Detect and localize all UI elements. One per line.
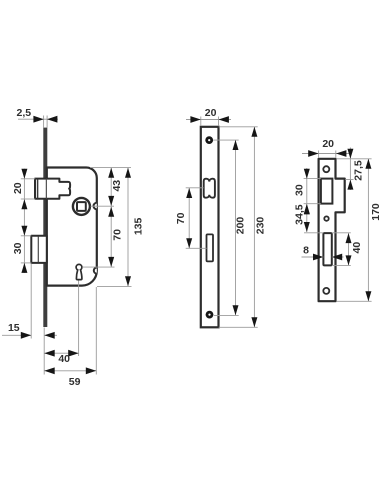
wire ext latch top — [21, 178, 35, 180]
wire ext plate bottom right — [336, 300, 371, 302]
follower circle U — [73, 198, 90, 215]
wire dim line 20 top — [186, 119, 231, 121]
svg-text:30: 30 — [12, 242, 24, 254]
svg-text:40: 40 — [58, 353, 70, 365]
screw hole bottom — [323, 288, 329, 294]
wire dim vline 30/34,5 — [306, 168, 308, 232]
node arrow 70 top — [108, 207, 114, 217]
wire dim line 59 — [44, 370, 96, 372]
wire ext keyhole axis vline — [78, 281, 80, 357]
svg-text:70: 70 — [175, 212, 187, 224]
svg-text:43: 43 — [111, 180, 123, 192]
wire ext hole bottom right — [214, 314, 239, 316]
wire dim line 40 — [44, 352, 78, 354]
wire ext faceplate bottom vline — [43, 328, 45, 375]
wire dim vline 20/30 left — [23, 169, 25, 273]
svg-text:40: 40 — [351, 242, 363, 254]
wire ext latch bottom — [21, 198, 35, 200]
wire dim line 8 — [302, 256, 344, 258]
node arrow 40 left — [44, 350, 54, 357]
latch cutout — [204, 179, 215, 198]
wire ext hole top right — [213, 139, 239, 141]
svg-text:34,5: 34,5 — [294, 204, 306, 225]
wire ext follower axis right — [91, 205, 115, 207]
wire dim vline 70 — [188, 188, 190, 248]
node arrow 230 bottom — [251, 317, 257, 327]
svg-text:20: 20 — [322, 138, 334, 150]
node arrow 30 bottom — [304, 204, 310, 214]
node arrow 2,5 left — [33, 116, 43, 123]
node arrow 135 bottom — [125, 276, 131, 286]
node arrow 40 bottom — [346, 255, 352, 265]
wire ext case bottom right — [97, 285, 132, 287]
deadbolt slot — [323, 233, 331, 265]
node arrow 20 left — [308, 150, 318, 157]
node arrow 40 top — [346, 233, 352, 243]
faceplate edge bar — [43, 128, 47, 327]
wire ext case bottom vline — [95, 287, 97, 375]
wire ext case top right — [90, 167, 131, 169]
wire dim line 2,5 — [18, 118, 58, 120]
node arrow 20 right — [336, 150, 346, 157]
strike plate outline — [319, 159, 345, 301]
latch bolt head — [35, 179, 47, 199]
deadbolt bevel line — [37, 236, 39, 262]
node arrow 20 bottom — [21, 199, 27, 209]
follower square — [77, 202, 86, 211]
wire ext plate top right — [336, 158, 371, 160]
wire ext plate bottom right — [219, 326, 258, 328]
keyhole slot — [76, 269, 82, 279]
latch cutout — [321, 179, 333, 204]
latch bolt bevel line — [37, 179, 39, 198]
node arrow 230 top — [251, 127, 257, 137]
svg-text:20: 20 — [205, 107, 217, 119]
wire dim vline 200 — [235, 140, 237, 315]
node arrow 27,5 bottom — [347, 180, 353, 190]
faceplate front outline — [201, 127, 219, 327]
wire dim vline 40 — [348, 233, 350, 265]
screw hole top — [205, 136, 213, 144]
node arrow 20 left — [190, 116, 200, 123]
center hole — [324, 216, 328, 220]
wire dim vline 230 — [253, 127, 255, 327]
node arrow 43 top — [108, 168, 114, 178]
svg-text:15: 15 — [8, 322, 20, 334]
svg-text:59: 59 — [69, 376, 81, 388]
latch bolt tail — [47, 179, 70, 199]
wire dim vline 135 — [127, 168, 129, 286]
wire ext slot top — [304, 232, 351, 234]
wire dim line 20 — [302, 153, 350, 155]
node arrow 40 right — [68, 350, 78, 357]
node arrow 2,5 right — [47, 116, 57, 123]
wire ext deadbolt top — [21, 235, 32, 237]
wire dim vline 170 — [367, 159, 369, 301]
node arrow 30 top — [21, 226, 27, 236]
node arrow 43 bottom — [108, 196, 114, 206]
node arrow 8 left — [313, 254, 323, 261]
svg-text:135: 135 — [132, 217, 144, 235]
svg-text:30: 30 — [294, 184, 306, 196]
node spring bump on case edge — [94, 268, 97, 274]
wire ext deadbolt cutout center — [186, 247, 207, 249]
node arrow 8 right — [332, 254, 342, 261]
svg-text:2,5: 2,5 — [16, 107, 31, 119]
node arrow 15 left — [21, 332, 31, 339]
wire ext latch cutout bottom — [304, 203, 321, 205]
wire ext latch cutout top — [304, 178, 321, 180]
node arrow 15 right — [44, 332, 54, 339]
screw hole bottom — [206, 311, 214, 319]
node arrow 135 top — [125, 168, 131, 178]
node arrow 70 top — [186, 188, 192, 198]
wire ext deadbolt left vline — [30, 264, 32, 339]
wire dim vline 27,5 — [349, 148, 351, 191]
screw hole top — [323, 166, 329, 172]
wire ext plate top corners — [201, 117, 219, 127]
svg-text:70: 70 — [112, 229, 124, 241]
wire ext latch cutout center — [186, 187, 204, 189]
node arrow 59 left — [44, 367, 54, 374]
node arrow 20 right — [219, 116, 229, 123]
svg-text:8: 8 — [303, 245, 309, 257]
wire ext tab top — [345, 179, 353, 181]
node arrow 20 top — [21, 169, 27, 179]
wire dim line 15 — [2, 334, 57, 336]
lock case outline — [47, 168, 97, 286]
node arrow 27,5 top — [347, 149, 353, 159]
keyhole circle — [76, 264, 82, 270]
wire ext lines faceplate thickness — [44, 116, 48, 128]
svg-text:170: 170 — [370, 203, 381, 221]
node arrow 30 top — [304, 169, 310, 179]
node arrow 70 bottom — [108, 257, 114, 267]
svg-text:200: 200 — [235, 217, 247, 235]
node arrow 59 right — [86, 367, 96, 374]
deadbolt cutout — [207, 234, 214, 261]
node arrow 70 bottom — [186, 238, 192, 248]
node arrow 170 bottom — [365, 291, 371, 301]
deadbolt — [31, 236, 47, 263]
node arrow 200 top — [233, 140, 239, 150]
wire dim vline 43/70 — [110, 168, 112, 267]
wire ext keyhole axis right — [82, 266, 114, 268]
node follower bump on case edge — [93, 203, 96, 210]
wire ext slot bottom — [332, 264, 351, 266]
node arrow 34,5 top — [304, 204, 310, 214]
wire ext plate top right — [219, 126, 258, 128]
node arrow 34,5 bottom — [304, 222, 310, 232]
node arrow 30 bottom — [21, 263, 27, 273]
svg-text:27,5: 27,5 — [353, 160, 365, 181]
node arrow 200 bottom — [233, 305, 239, 315]
svg-text:20: 20 — [12, 182, 24, 194]
wire ext plate top corners — [319, 151, 336, 159]
wire ext deadbolt bottom — [21, 262, 32, 264]
node arrow 170 top — [365, 159, 371, 169]
svg-text:230: 230 — [255, 217, 267, 235]
